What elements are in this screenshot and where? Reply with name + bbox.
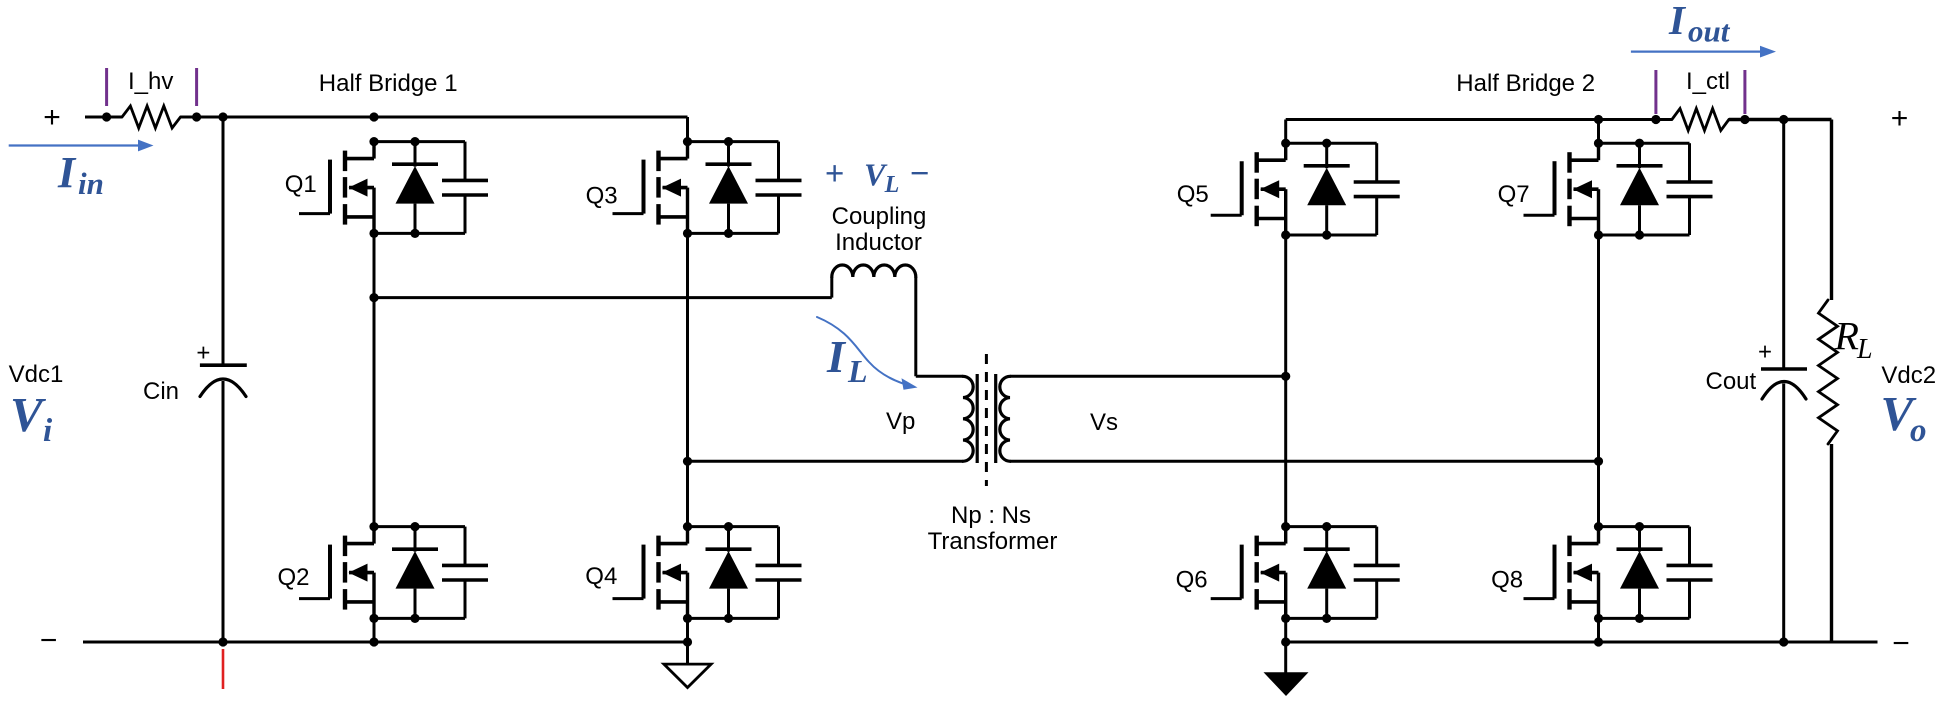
svg-text:Q8: Q8: [1491, 567, 1523, 594]
svg-text:R: R: [1834, 314, 1859, 359]
svg-text:V: V: [10, 387, 47, 442]
svg-text:+: +: [825, 154, 844, 191]
svg-text:Vp: Vp: [886, 408, 915, 435]
svg-text:I_hv: I_hv: [128, 68, 173, 95]
svg-text:Half Bridge 1: Half Bridge 1: [319, 70, 458, 97]
svg-text:Inductor: Inductor: [835, 229, 922, 256]
svg-text:out: out: [1688, 14, 1731, 49]
svg-text:+: +: [43, 101, 61, 134]
svg-text:L: L: [884, 172, 900, 198]
svg-text:Vdc1: Vdc1: [9, 361, 64, 388]
svg-text:i: i: [43, 413, 53, 449]
svg-text:Transformer: Transformer: [928, 528, 1058, 555]
svg-text:L: L: [847, 353, 868, 389]
svg-text:Cout: Cout: [1706, 368, 1757, 395]
svg-text:I: I: [1668, 0, 1687, 43]
svg-text:I: I: [826, 331, 847, 382]
svg-text:Np : Ns: Np : Ns: [951, 502, 1031, 529]
svg-text:I: I: [57, 148, 77, 197]
svg-text:Vs: Vs: [1090, 409, 1118, 436]
svg-text:o: o: [1910, 413, 1927, 449]
svg-text:Half Bridge 2: Half Bridge 2: [1456, 70, 1595, 97]
svg-text:−: −: [1892, 627, 1910, 660]
svg-text:Q7: Q7: [1498, 181, 1530, 208]
svg-text:+: +: [1891, 102, 1909, 135]
svg-text:I_ctl: I_ctl: [1686, 68, 1730, 95]
svg-text:Q5: Q5: [1177, 181, 1209, 208]
svg-text:Coupling: Coupling: [832, 203, 927, 230]
svg-text:−: −: [910, 154, 929, 191]
svg-text:−: −: [40, 624, 58, 657]
svg-text:+: +: [196, 340, 210, 367]
svg-text:Q4: Q4: [585, 563, 617, 590]
svg-text:Q6: Q6: [1176, 567, 1208, 594]
svg-text:+: +: [1758, 339, 1772, 366]
svg-text:Q1: Q1: [285, 171, 317, 198]
svg-text:in: in: [78, 166, 104, 201]
svg-text:L: L: [1856, 334, 1873, 365]
svg-text:Q3: Q3: [586, 183, 618, 210]
svg-text:Q2: Q2: [278, 564, 310, 591]
svg-text:Vdc2: Vdc2: [1881, 362, 1935, 389]
svg-text:Cin: Cin: [143, 378, 179, 405]
